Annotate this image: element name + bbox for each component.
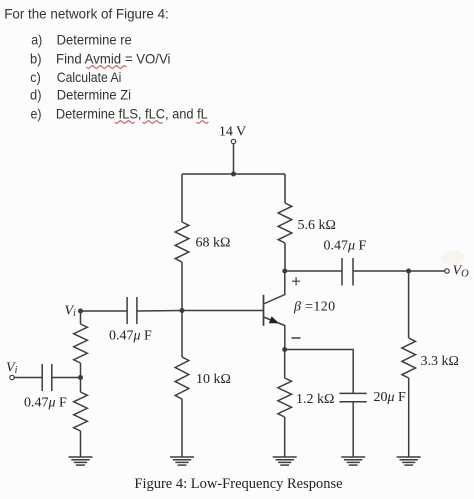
svg-text:0.47μ F: 0.47μ F <box>324 239 367 254</box>
ground under CE <box>341 457 365 465</box>
svg-text:68 kΩ: 68 kΩ <box>196 236 231 251</box>
node junction top rail <box>231 172 236 177</box>
wire right drop to RC <box>284 174 286 203</box>
ground under left branch <box>69 457 93 465</box>
terminal Vo circle <box>445 269 449 273</box>
wire emitter node to RE <box>284 350 286 379</box>
spellcheck squiggle under Avmid <box>86 66 126 69</box>
spellcheck squiggle under fL <box>196 121 208 124</box>
svg-text:For the network of Figure 4:: For the network of Figure 4: <box>4 5 169 21</box>
capacitor CE 20uF <box>339 393 366 401</box>
wire RE to ground <box>284 417 286 457</box>
svg-text:c): c) <box>30 69 41 85</box>
wire Vi terminal to input cap <box>14 377 42 379</box>
wire collector to output cap <box>285 270 342 272</box>
wire Vo node to RL <box>408 271 410 338</box>
wire left drop to R1 <box>181 174 183 222</box>
svg-text:Vi: Vi <box>65 304 77 320</box>
svg-text:β =120: β =120 <box>293 300 335 315</box>
node base junction <box>180 308 185 313</box>
resistor upper left <box>74 324 88 363</box>
svg-text:1.2 kΩ: 1.2 kΩ <box>296 392 334 407</box>
wire Vo node to terminal <box>409 270 445 272</box>
svg-text:Determine fLS, fLC, and fL: Determine fLS, fLC, and fL <box>56 106 208 122</box>
wire CE to ground <box>352 402 354 457</box>
wire R1 to base node <box>181 262 183 311</box>
wire top rail <box>182 173 285 175</box>
resistor RE 1.2 kOhm <box>278 378 292 417</box>
node collector junction <box>282 269 287 274</box>
resistor RL 3.3 kOhm <box>402 338 416 378</box>
svg-text:e): e) <box>31 106 42 122</box>
resistor RC 5.6 kOhm <box>278 203 292 243</box>
faint paper smudge <box>441 251 465 265</box>
spellcheck squiggle under fLC <box>143 121 163 124</box>
resistor R1 68 kOhm <box>175 222 189 262</box>
wire base node to R2 <box>181 311 183 358</box>
svg-text:a): a) <box>31 32 42 48</box>
wire lower resistor to ground <box>80 431 82 457</box>
svg-text:Find Avmid = VO/Vi: Find Avmid = VO/Vi <box>56 51 171 67</box>
node divider junction <box>78 375 83 380</box>
supply terminal circle <box>231 139 235 143</box>
label plus sign <box>292 277 300 285</box>
svg-text:VO: VO <box>453 264 470 280</box>
wire output cap to Vo node <box>353 270 409 272</box>
wire base <box>182 310 264 312</box>
svg-text:Determine re: Determine re <box>57 32 132 48</box>
svg-text:b): b) <box>30 51 42 67</box>
capacitor Cs 0.47uF input <box>42 364 52 391</box>
svg-text:0.47μ F: 0.47μ F <box>24 396 67 411</box>
resistor lower left <box>74 392 88 431</box>
svg-text:20μ F: 20μ F <box>374 390 407 405</box>
wire R2 to ground <box>181 399 183 457</box>
svg-text:d): d) <box>30 87 42 103</box>
svg-text:Determine Zi: Determine Zi <box>57 87 131 103</box>
wire emitter to bypass cap <box>285 350 354 394</box>
svg-text:5.6 kΩ: 5.6 kΩ <box>298 218 336 233</box>
wire input cap to divider node <box>52 377 81 379</box>
wire RL to ground <box>408 378 410 457</box>
ground under RL <box>397 457 421 465</box>
wire middle cap to base node <box>137 310 182 313</box>
svg-text:10 kΩ: 10 kΩ <box>196 372 231 387</box>
svg-text:0.47μ F: 0.47μ F <box>109 329 152 344</box>
wire supply stem <box>233 144 235 174</box>
svg-text:14 V: 14 V <box>219 125 246 140</box>
transistor Q1 <box>264 271 285 350</box>
capacitor Co 0.47uF output <box>342 258 353 286</box>
node emitter junction <box>282 347 287 352</box>
spellcheck squiggle under fLS <box>115 121 135 124</box>
label minus sign <box>292 337 301 339</box>
ground under RE <box>273 457 297 465</box>
wire divider node to lower resistor <box>80 378 82 393</box>
resistor R2 10 kOhm <box>175 357 189 399</box>
svg-text:3.3 kΩ: 3.3 kΩ <box>421 354 459 369</box>
svg-text:Calculate Ai: Calculate Ai <box>57 69 122 85</box>
node Vi junction <box>78 309 83 314</box>
ground under R2 <box>170 457 194 465</box>
node Vo junction <box>406 269 411 274</box>
terminal Vi circle <box>10 375 14 379</box>
wire Vi node to middle cap <box>81 310 128 312</box>
svg-text:Vi: Vi <box>6 361 18 377</box>
svg-text:Figure 4: Low-Frequency Respon: Figure 4: Low-Frequency Response <box>134 476 342 492</box>
wire RC to collector node <box>284 243 286 271</box>
capacitor Ci 0.47uF middle <box>127 297 137 324</box>
wire Vi node to upper resistor <box>80 311 82 324</box>
wire upper resistor to divider node <box>80 363 82 378</box>
